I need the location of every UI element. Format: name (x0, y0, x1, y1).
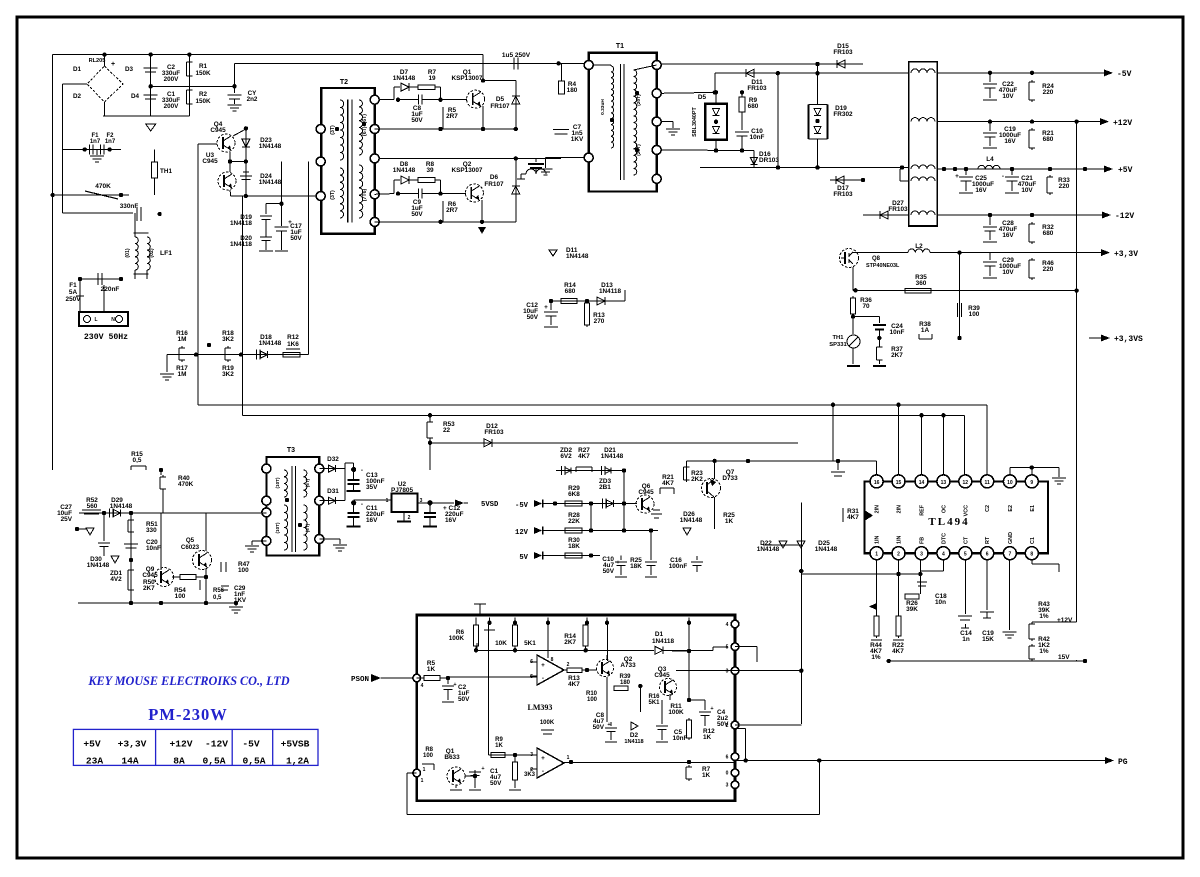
svg-text:220: 220 (1043, 89, 1054, 96)
svg-text:A733: A733 (620, 662, 636, 669)
svg-text:R56: R56 (213, 588, 225, 594)
svg-text:1N4148: 1N4148 (680, 517, 703, 524)
svg-text:CT: CT (963, 536, 969, 544)
svg-text:100: 100 (238, 567, 249, 574)
svg-text:+5V: +5V (1118, 166, 1133, 175)
svg-text:4: 4 (726, 622, 729, 628)
svg-text:+: + (955, 173, 959, 180)
svg-text:+5V: +5V (83, 739, 101, 750)
svg-text:360: 360 (916, 280, 927, 287)
svg-text:D1: D1 (655, 631, 664, 638)
svg-text:DTC: DTC (941, 533, 947, 544)
svg-text:50V: 50V (411, 211, 423, 218)
svg-text:KSP13007: KSP13007 (452, 167, 483, 174)
svg-text:6V2: 6V2 (560, 453, 572, 460)
svg-text:STP40NE03L: STP40NE03L (866, 263, 900, 269)
svg-text:T1: T1 (616, 43, 624, 50)
svg-text:250V: 250V (66, 296, 82, 303)
svg-text:+: + (616, 560, 619, 566)
svg-text:FR103: FR103 (888, 206, 908, 213)
svg-text:+: + (453, 682, 456, 688)
svg-text:1%: 1% (1039, 648, 1049, 655)
svg-text:FR107: FR107 (490, 103, 510, 110)
svg-text:C945: C945 (654, 672, 670, 679)
svg-text:330nF: 330nF (120, 203, 139, 210)
svg-text:50V: 50V (458, 696, 470, 703)
svg-text:50V: 50V (411, 117, 423, 124)
svg-text:D2: D2 (630, 732, 639, 739)
svg-text:0,5A: 0,5A (202, 756, 225, 767)
svg-text:+5VSB: +5VSB (281, 739, 310, 750)
svg-text:10nF: 10nF (750, 134, 765, 141)
svg-text:B633: B633 (444, 754, 460, 761)
svg-text:(01): (01) (125, 248, 131, 257)
svg-text:15: 15 (896, 480, 902, 486)
svg-text:150K: 150K (195, 70, 211, 77)
svg-text:1N4148: 1N4148 (815, 546, 838, 553)
svg-text:PJ7805: PJ7805 (391, 487, 413, 494)
svg-text:10V: 10V (1002, 93, 1014, 100)
svg-text:D4: D4 (131, 93, 140, 100)
svg-text:2K7: 2K7 (891, 352, 903, 359)
svg-text:6K8: 6K8 (568, 491, 580, 498)
svg-text:(5T): (5T) (305, 478, 310, 487)
svg-text:+: + (541, 755, 545, 762)
svg-text:L: L (94, 317, 97, 323)
svg-text:3K3: 3K3 (524, 772, 536, 778)
svg-text:8: 8 (1030, 552, 1033, 558)
svg-text:C945: C945 (210, 127, 226, 134)
svg-text:1N4118: 1N4118 (230, 220, 252, 227)
svg-text:SP331: SP331 (829, 342, 847, 348)
svg-text:T3: T3 (287, 447, 295, 454)
svg-text:1N4148: 1N4148 (259, 143, 282, 150)
svg-text:18K: 18K (630, 563, 642, 570)
svg-text:+12V: +12V (169, 739, 192, 750)
svg-text:1K: 1K (725, 518, 734, 525)
svg-text:4: 4 (942, 552, 945, 558)
svg-text:1%: 1% (1039, 613, 1049, 620)
svg-text:+: + (607, 722, 610, 728)
svg-text:D5: D5 (698, 94, 707, 101)
svg-text:+: + (481, 766, 484, 772)
svg-text:22K: 22K (568, 518, 580, 525)
svg-text:R1: R1 (199, 63, 208, 70)
svg-text:T2: T2 (340, 79, 348, 86)
svg-text:3K2: 3K2 (222, 371, 234, 378)
svg-text:1: 1 (567, 755, 570, 761)
svg-text:330: 330 (146, 527, 157, 534)
svg-text:FB: FB (920, 537, 926, 544)
svg-text:100: 100 (175, 593, 186, 600)
svg-text:5A: 5A (69, 289, 78, 296)
svg-text:12V: 12V (515, 529, 529, 537)
svg-text:680: 680 (1043, 230, 1054, 237)
svg-text:-: - (361, 501, 363, 508)
svg-text:0,5A: 0,5A (242, 756, 265, 767)
svg-text:2K7: 2K7 (143, 585, 155, 592)
svg-text:1M: 1M (178, 371, 187, 378)
svg-text:-12V: -12V (205, 739, 228, 750)
svg-text:E2: E2 (1008, 505, 1014, 512)
svg-text:1N4148: 1N4148 (259, 340, 282, 347)
svg-text:3K2: 3K2 (222, 336, 234, 343)
svg-text:1N4148: 1N4148 (757, 546, 780, 553)
svg-text:680: 680 (748, 103, 759, 110)
svg-text:RL205: RL205 (89, 58, 106, 64)
svg-text:D1: D1 (73, 66, 82, 73)
svg-text:C6023: C6023 (181, 544, 200, 551)
svg-text:1: 1 (875, 552, 878, 558)
svg-text:1IN: 1IN (897, 536, 903, 544)
svg-text:15K: 15K (982, 636, 994, 643)
svg-text:12: 12 (963, 480, 969, 486)
svg-text:-: - (1002, 173, 1004, 180)
svg-text:FR103: FR103 (484, 429, 504, 436)
svg-text:2n2: 2n2 (247, 96, 258, 103)
svg-text:1u5 250V: 1u5 250V (502, 52, 531, 59)
svg-text:35V: 35V (366, 484, 378, 491)
svg-text:C945: C945 (638, 489, 654, 496)
svg-text:1N4118: 1N4118 (652, 638, 674, 645)
svg-text:100K: 100K (540, 720, 555, 726)
svg-text:50V: 50V (717, 721, 729, 728)
svg-text:+12V: +12V (1113, 119, 1132, 128)
svg-text:2: 2 (408, 515, 411, 521)
svg-text:8A: 8A (173, 756, 185, 767)
svg-text:470K: 470K (95, 183, 111, 190)
svg-text:4K7: 4K7 (892, 648, 904, 655)
svg-text:6: 6 (986, 552, 989, 558)
svg-text:-: - (542, 675, 544, 682)
svg-text:4K7: 4K7 (662, 480, 674, 487)
svg-text:680: 680 (565, 288, 576, 295)
svg-text:1KV: 1KV (571, 136, 584, 143)
svg-text:1: 1 (386, 498, 389, 504)
svg-text:RT: RT (985, 536, 991, 544)
svg-text:D5: D5 (496, 96, 505, 103)
svg-text:REF: REF (920, 504, 926, 515)
svg-text:1KV: 1KV (234, 597, 247, 604)
svg-text:180: 180 (620, 680, 631, 686)
svg-text:L4: L4 (986, 156, 994, 163)
svg-text:PM-230W: PM-230W (148, 705, 227, 724)
svg-text:14A: 14A (121, 756, 139, 767)
svg-text:2: 2 (897, 552, 900, 558)
svg-text:7: 7 (1009, 552, 1012, 558)
svg-text:+12V: +12V (1057, 617, 1073, 624)
svg-text:16V: 16V (1002, 232, 1014, 239)
svg-text:1N4118: 1N4118 (624, 739, 643, 745)
svg-text:16V: 16V (366, 517, 378, 524)
svg-text:R2: R2 (199, 91, 208, 98)
svg-text:KSP13007: KSP13007 (452, 75, 483, 82)
svg-text:+: + (541, 662, 545, 669)
svg-text:-12V: -12V (1115, 212, 1134, 221)
svg-text:(10T): (10T) (275, 522, 280, 533)
svg-text:+3,3V: +3,3V (118, 739, 147, 750)
svg-text:1,2A: 1,2A (286, 756, 309, 767)
svg-text:(5T): (5T) (305, 523, 310, 532)
svg-text:-5V: -5V (1117, 70, 1132, 79)
svg-text:C945: C945 (202, 158, 218, 165)
svg-text:N: N (111, 317, 115, 323)
svg-text:4V2: 4V2 (110, 576, 122, 583)
svg-text:R12: R12 (287, 334, 299, 341)
svg-text:E1: E1 (1030, 505, 1036, 512)
svg-text:(10T): (10T) (275, 477, 280, 488)
svg-text:39: 39 (426, 167, 434, 174)
svg-text:2K7: 2K7 (564, 639, 576, 646)
svg-text:4K7: 4K7 (568, 681, 580, 688)
svg-text:10K: 10K (495, 640, 507, 647)
svg-text:1N4148: 1N4148 (566, 253, 589, 260)
svg-text:270: 270 (594, 318, 605, 325)
svg-text:50V: 50V (603, 568, 615, 575)
svg-text:+3,3V: +3,3V (1114, 250, 1138, 259)
svg-text:15V: 15V (1058, 654, 1070, 661)
svg-text:10: 10 (1007, 480, 1013, 486)
svg-text:TH1: TH1 (160, 168, 172, 175)
svg-text:D733: D733 (722, 475, 738, 482)
svg-text:16V: 16V (1004, 138, 1016, 145)
svg-text:D2: D2 (73, 93, 82, 100)
svg-text:D31: D31 (327, 488, 339, 495)
svg-text:5: 5 (726, 645, 729, 651)
svg-text:10nF: 10nF (673, 735, 688, 742)
svg-text:22: 22 (443, 427, 451, 434)
svg-text:5VSD: 5VSD (481, 501, 499, 509)
svg-text:(20T): (20T) (636, 94, 642, 106)
svg-text:1N4148: 1N4148 (259, 179, 282, 186)
svg-text:11: 11 (985, 480, 991, 486)
svg-text:3: 3 (920, 552, 923, 558)
svg-text:+: + (111, 61, 115, 68)
svg-text:-: - (361, 467, 363, 474)
svg-text:4: 4 (421, 683, 424, 689)
svg-text:KEY MOUSE ELECTROIKS CO., LTD: KEY MOUSE ELECTROIKS CO., LTD (87, 674, 289, 688)
svg-text:1N4148: 1N4148 (87, 562, 110, 569)
svg-text:10V: 10V (1002, 269, 1014, 276)
svg-text:1n: 1n (962, 636, 970, 643)
svg-text:1K: 1K (495, 743, 503, 749)
svg-text:(3T): (3T) (330, 190, 336, 200)
svg-text:PG: PG (1118, 758, 1128, 767)
svg-text:1n7: 1n7 (90, 139, 101, 145)
svg-text:1N4118: 1N4118 (599, 288, 621, 295)
svg-text:5K1: 5K1 (648, 700, 660, 706)
svg-text:220nF: 220nF (101, 286, 120, 293)
svg-text:3: 3 (726, 783, 729, 789)
svg-text:1K: 1K (427, 666, 436, 673)
svg-text:1K: 1K (702, 772, 711, 779)
svg-text:(7T6): (7T6) (362, 189, 368, 202)
svg-text:1N4148: 1N4148 (601, 453, 624, 460)
svg-text:10V: 10V (1021, 187, 1033, 194)
svg-text:100: 100 (587, 697, 598, 703)
svg-text:70: 70 (862, 303, 870, 310)
svg-text:DR103: DR103 (759, 157, 779, 164)
svg-text:5V: 5V (519, 554, 528, 562)
svg-text:+: + (544, 304, 548, 311)
svg-text:1K6: 1K6 (287, 341, 299, 348)
svg-text:16: 16 (874, 480, 880, 486)
svg-text:10nF: 10nF (146, 545, 161, 552)
svg-text:200V: 200V (164, 103, 180, 110)
svg-text:4K7: 4K7 (847, 514, 859, 521)
svg-text:9: 9 (1030, 480, 1033, 486)
svg-text:14: 14 (919, 480, 925, 486)
svg-text:(02): (02) (149, 248, 155, 257)
svg-text:10n: 10n (935, 599, 946, 606)
svg-text:TH1: TH1 (833, 335, 845, 341)
svg-text:180: 180 (567, 87, 578, 94)
svg-text:-5V: -5V (242, 739, 260, 750)
svg-text:150K: 150K (195, 98, 211, 105)
svg-text:D32: D32 (327, 456, 339, 463)
svg-text:LF1: LF1 (160, 250, 172, 257)
svg-text:25V: 25V (61, 516, 73, 523)
svg-text:VCC: VCC (963, 505, 969, 516)
svg-text:220: 220 (1043, 266, 1054, 273)
svg-text:1K: 1K (703, 734, 712, 741)
svg-text:50V: 50V (290, 235, 302, 242)
svg-text:220: 220 (1059, 183, 1070, 190)
svg-text:-: - (542, 768, 544, 775)
svg-text:D3: D3 (125, 66, 134, 73)
svg-text:39K: 39K (906, 606, 918, 613)
svg-text:1A: 1A (921, 327, 930, 334)
svg-text:1%: 1% (871, 654, 881, 661)
svg-text:+3,3VS: +3,3VS (1114, 335, 1143, 344)
svg-text:16V: 16V (975, 187, 987, 194)
svg-text:100K: 100K (449, 635, 465, 642)
svg-text:FR302: FR302 (833, 111, 853, 118)
svg-text:560: 560 (87, 503, 98, 510)
svg-text:PSON: PSON (351, 676, 369, 684)
svg-text:TL494: TL494 (928, 516, 969, 528)
svg-text:Q5: Q5 (186, 537, 195, 544)
svg-text:1N4118: 1N4118 (230, 241, 252, 248)
svg-text:5K1: 5K1 (524, 640, 536, 647)
svg-text:OC: OC (941, 505, 947, 513)
svg-text:1n7: 1n7 (105, 139, 116, 145)
svg-text:13: 13 (941, 480, 947, 486)
svg-text:1N4148: 1N4148 (393, 167, 416, 174)
svg-text:1IN: 1IN (875, 536, 881, 544)
svg-text:0: 0 (726, 771, 729, 777)
svg-text:2B1: 2B1 (599, 484, 611, 491)
svg-text:2K2: 2K2 (691, 476, 703, 483)
svg-text:50V: 50V (490, 780, 502, 787)
svg-text:680: 680 (1043, 136, 1054, 143)
svg-text:5: 5 (964, 552, 967, 558)
svg-text:3: 3 (726, 669, 729, 675)
svg-text:200V: 200V (164, 76, 180, 83)
svg-text:470K: 470K (178, 481, 194, 488)
svg-text:0,5: 0,5 (213, 595, 222, 601)
svg-text:FR103: FR103 (833, 49, 853, 56)
svg-text:1M: 1M (178, 336, 187, 343)
svg-text:4K7: 4K7 (578, 453, 590, 460)
svg-text:50V: 50V (593, 724, 605, 731)
svg-text:2R7: 2R7 (446, 113, 458, 120)
svg-text:0.33uH: 0.33uH (600, 99, 606, 115)
svg-text:FR103: FR103 (747, 85, 767, 92)
svg-text:16V: 16V (445, 517, 457, 524)
svg-text:230V 50Hz: 230V 50Hz (84, 333, 128, 342)
svg-text:Q8: Q8 (872, 256, 881, 262)
svg-text:LM393: LM393 (528, 703, 553, 712)
svg-text:F1: F1 (69, 282, 77, 289)
svg-text:GND: GND (1008, 532, 1014, 544)
svg-text:FR107: FR107 (484, 181, 504, 188)
svg-text:-5V: -5V (515, 502, 529, 510)
svg-text:D6: D6 (490, 174, 499, 181)
svg-text:2R7: 2R7 (446, 207, 458, 214)
svg-text:6: 6 (726, 755, 729, 761)
svg-text:C1: C1 (1030, 537, 1036, 544)
svg-text:+: + (710, 706, 713, 712)
svg-text:100K: 100K (668, 709, 684, 716)
svg-text:18K: 18K (568, 543, 580, 550)
svg-text:100nF: 100nF (669, 563, 688, 570)
svg-text:1: 1 (421, 778, 424, 784)
svg-text:0,5: 0,5 (133, 457, 142, 464)
svg-text:50V: 50V (527, 314, 539, 321)
svg-text:2IN: 2IN (897, 505, 903, 513)
svg-text:2: 2 (567, 662, 570, 668)
svg-text:1N4148: 1N4148 (393, 75, 416, 82)
svg-text:2IN: 2IN (875, 505, 881, 513)
svg-text:FR103: FR103 (833, 191, 853, 198)
svg-text:1: 1 (423, 767, 426, 773)
svg-text:100: 100 (969, 311, 980, 318)
svg-text:SBL3040PT: SBL3040PT (692, 106, 698, 136)
svg-text:100: 100 (423, 753, 434, 759)
svg-text:23A: 23A (86, 756, 104, 767)
svg-text:10nF: 10nF (890, 329, 905, 336)
svg-text:C2: C2 (985, 505, 991, 512)
svg-text:19: 19 (428, 75, 436, 82)
